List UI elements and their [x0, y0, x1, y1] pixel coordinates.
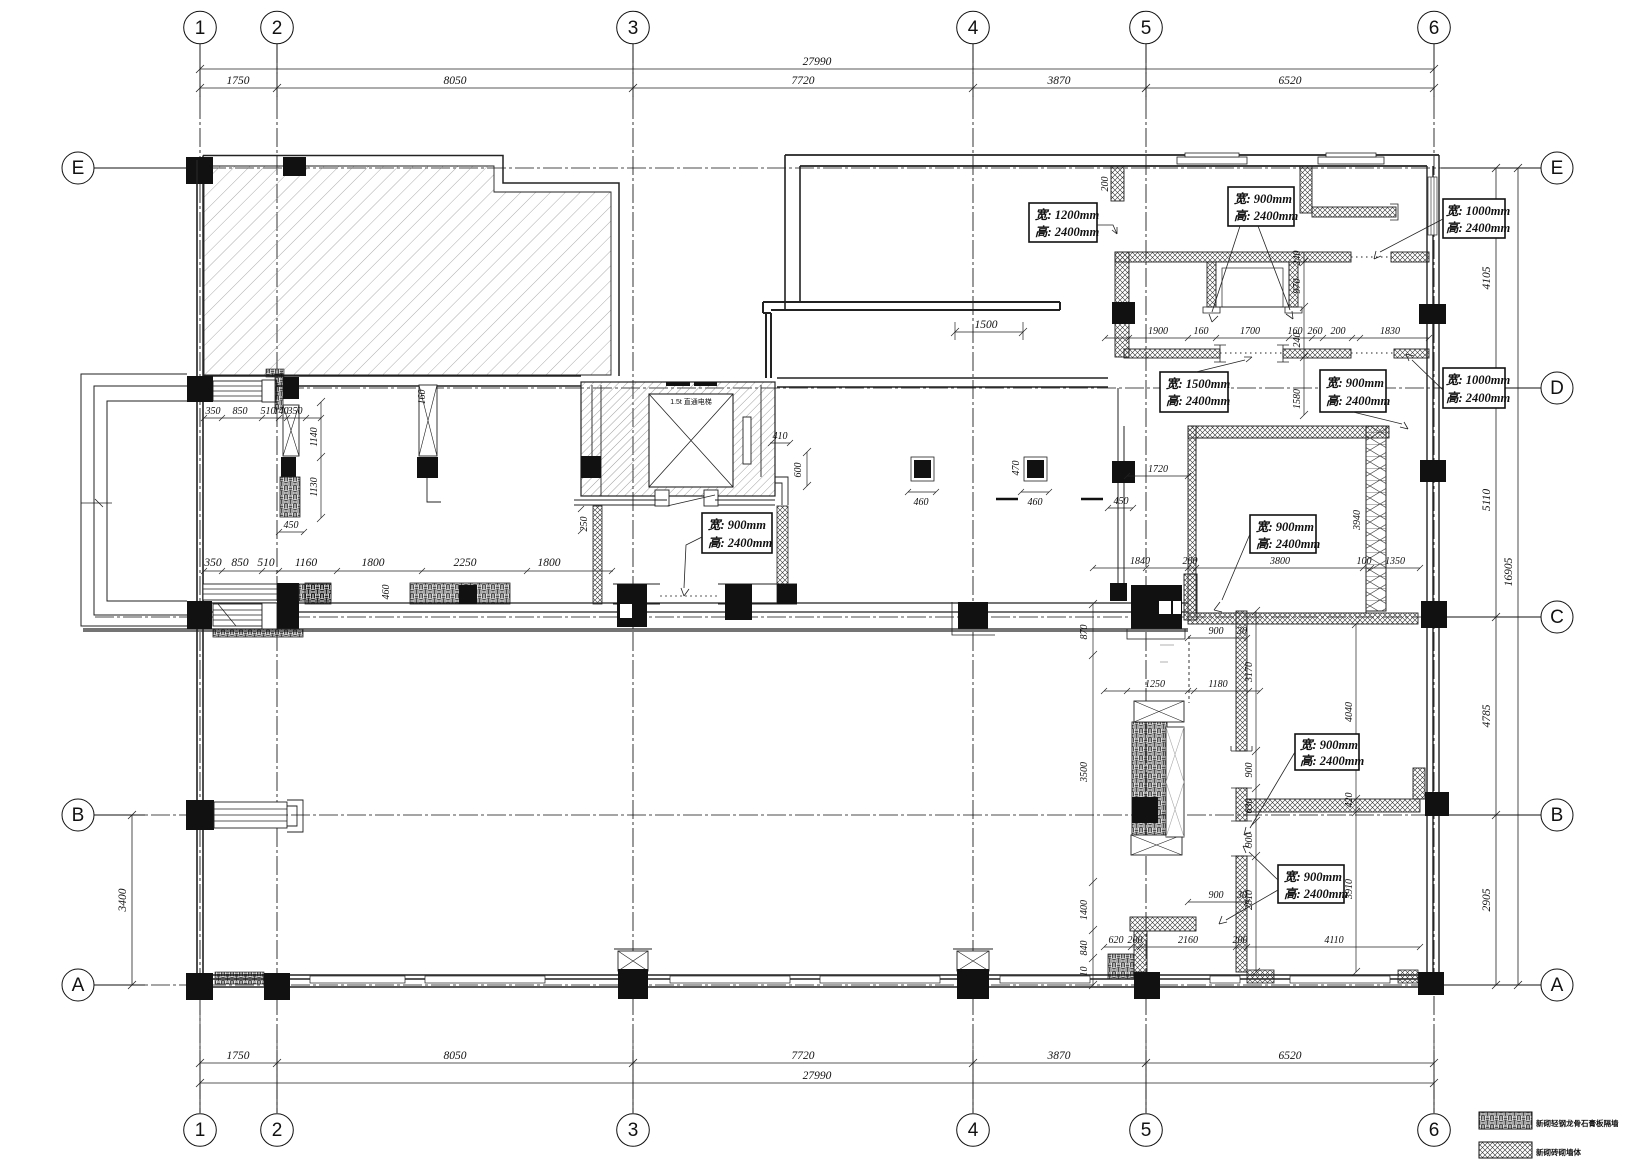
- vestibule nested rectangles: [81, 374, 187, 626]
- svg-text:850: 850: [233, 406, 248, 417]
- column B6: [1425, 792, 1449, 816]
- svg-text:高: 2400mm: 高: 2400mm: [1256, 537, 1321, 551]
- right exterior wall: [1427, 155, 1439, 985]
- svg-text:4110: 4110: [1324, 935, 1343, 946]
- svg-text:1750: 1750: [227, 75, 250, 87]
- bottom dimension chain: [196, 1010, 1438, 1090]
- column D2: [283, 377, 299, 399]
- stair shaft basket wall: [1132, 722, 1167, 835]
- door opening dash x1188: [1188, 636, 1190, 703]
- call panel: [743, 417, 751, 464]
- svg-text:宽: 900mm: 宽: 900mm: [1299, 738, 1358, 752]
- svg-text:宽: 900mm: 宽: 900mm: [1255, 520, 1314, 534]
- svg-text:420: 420: [1344, 793, 1355, 808]
- svg-text:3170: 3170: [1244, 662, 1255, 683]
- dim 1720: [1124, 473, 1191, 479]
- svg-text:5110: 5110: [1481, 489, 1493, 511]
- column C mid: [725, 584, 752, 620]
- svg-text:200: 200: [1331, 326, 1346, 337]
- svg-text:1400: 1400: [1079, 900, 1090, 920]
- partition x1293: [1289, 262, 1298, 307]
- svg-text:2160: 2160: [1178, 935, 1198, 946]
- svg-text:3: 3: [628, 18, 639, 39]
- svg-text:840: 840: [1079, 941, 1090, 956]
- svg-text:8050: 8050: [444, 1050, 467, 1062]
- column A3 + xbox: [614, 949, 652, 999]
- vestibule entry tick: [81, 499, 112, 507]
- column C6: [1421, 601, 1447, 628]
- B-row interior wall: [1247, 799, 1420, 812]
- label box W1200: [1029, 203, 1100, 242]
- svg-text:1580: 1580: [1292, 389, 1303, 409]
- column A1: [186, 973, 213, 1000]
- partition x1211: [1207, 262, 1216, 307]
- svg-text:850: 850: [231, 557, 249, 569]
- svg-text:1130: 1130: [309, 477, 320, 496]
- svg-text:4: 4: [968, 1120, 979, 1141]
- column C lobby right: [777, 584, 797, 604]
- black block in stair: [1132, 797, 1158, 823]
- lobby door gap dashes: [660, 595, 718, 597]
- C-row sill brick piece 2 with column: [410, 583, 510, 604]
- svg-text:6520: 6520: [1279, 75, 1302, 87]
- svg-text:350: 350: [287, 406, 303, 417]
- shaft right step: [775, 477, 788, 505]
- svg-text:900: 900: [1244, 833, 1255, 848]
- svg-text:6: 6: [1429, 18, 1440, 39]
- svg-text:27990: 27990: [803, 56, 832, 68]
- long dim chain middle band y571: [201, 568, 615, 574]
- right wall window strip: [1428, 177, 1437, 235]
- svg-text:8050: 8050: [444, 75, 467, 87]
- column A2: [264, 973, 290, 1000]
- label box W900 B room lower: [1278, 865, 1349, 903]
- svg-text:高: 2400mm: 高: 2400mm: [708, 536, 773, 550]
- svg-text:630: 630: [1244, 799, 1255, 814]
- svg-text:宽: 900mm: 宽: 900mm: [1233, 192, 1292, 206]
- sill piece A1-A2: [215, 972, 264, 984]
- svg-text:高: 2400mm: 高: 2400mm: [1166, 394, 1231, 408]
- lobby below shaft walls: [574, 500, 775, 505]
- dim chain under D door: [201, 415, 324, 421]
- svg-text:1140: 1140: [309, 427, 320, 446]
- column C3: [617, 584, 647, 627]
- svg-text:4: 4: [968, 18, 979, 39]
- free column mid2: [1024, 457, 1047, 481]
- room inner outline D-C cluster: [1196, 438, 1366, 613]
- svg-text:900: 900: [1244, 763, 1255, 778]
- closet inner room: [1216, 262, 1289, 307]
- svg-text:16905: 16905: [1503, 557, 1515, 586]
- svg-text:1250: 1250: [1145, 679, 1165, 690]
- left dimension B-A 3400: [128, 811, 136, 989]
- right dimension chain E-A: [1492, 164, 1522, 989]
- vertical dim 1140/1130 at x321: [317, 398, 325, 522]
- crosshatch piece A wall: [1247, 970, 1274, 983]
- svg-text:5: 5: [1141, 18, 1152, 39]
- C-row band right cluster: [1188, 613, 1418, 624]
- D-C cluster top band: [1188, 426, 1389, 438]
- svg-text:1900: 1900: [1148, 326, 1168, 337]
- cluster left wall: [1115, 252, 1129, 357]
- interior wall y306 with step: [763, 302, 1060, 378]
- svg-text:7720: 7720: [792, 75, 815, 87]
- column E1: [186, 157, 213, 184]
- label box W1500: [1160, 372, 1231, 412]
- label box W900 C cluster: [1250, 515, 1321, 553]
- dim chain y338 cluster: [1102, 335, 1432, 341]
- svg-text:5: 5: [1141, 1120, 1152, 1141]
- svg-text:30: 30: [1236, 890, 1247, 901]
- terrace hatched area top-left: [204, 166, 611, 375]
- svg-text:970: 970: [1292, 279, 1303, 294]
- small door dash marks mid band: [996, 498, 1103, 501]
- window segments above shaft: [666, 382, 717, 386]
- cluster bottom band: [1124, 349, 1220, 358]
- svg-text:1830: 1830: [1380, 326, 1400, 337]
- grid centerlines horizontal E D C B A: [95, 168, 1540, 985]
- svg-text:2: 2: [272, 18, 283, 39]
- svg-text:宽: 900mm: 宽: 900mm: [1325, 376, 1384, 390]
- brick piece above D door: [266, 369, 284, 377]
- dims 460/470 at free columns: [905, 489, 1052, 495]
- dim chain y568: [1090, 565, 1423, 571]
- svg-text:240: 240: [1292, 251, 1303, 266]
- svg-text:900: 900: [1209, 626, 1224, 637]
- wall from top x1306: [1300, 166, 1312, 213]
- basket piece at A wall near grid5: [1108, 954, 1134, 979]
- svg-text:D: D: [1550, 378, 1564, 399]
- grid bubble 1 top: [184, 11, 1451, 44]
- svg-text:450: 450: [1114, 496, 1129, 507]
- stair ladder shaft: [1366, 426, 1386, 611]
- svg-text:宽: 1000mm: 宽: 1000mm: [1445, 204, 1511, 218]
- svg-text:2: 2: [272, 1120, 283, 1141]
- svg-text:B: B: [1551, 805, 1564, 826]
- svg-text:350: 350: [205, 406, 221, 417]
- door jambs bottom band: [1214, 345, 1289, 362]
- wall D-row top of middle band: [203, 376, 1108, 387]
- column shaft left: [581, 456, 601, 478]
- upper right section west wall: [785, 155, 800, 310]
- svg-text:240: 240: [1292, 333, 1303, 348]
- svg-text:1700: 1700: [1240, 326, 1260, 337]
- grid stub lines at bubbles: [200, 44, 1434, 1113]
- svg-text:200: 200: [1183, 556, 1198, 567]
- svg-text:3940: 3940: [1352, 510, 1363, 531]
- A-row window segments: [310, 976, 1390, 983]
- stair assembly C-B: black block C5: [1110, 583, 1127, 601]
- vertical dim chain x1256: [1252, 607, 1260, 976]
- svg-text:2250: 2250: [454, 557, 477, 569]
- svg-text:4785: 4785: [1481, 704, 1493, 727]
- svg-text:350: 350: [203, 557, 222, 569]
- column D1: [187, 376, 213, 402]
- svg-text:870: 870: [1079, 625, 1090, 640]
- svg-text:160: 160: [417, 390, 428, 405]
- D-C cluster left wall: [1188, 426, 1196, 613]
- label box W900 D cluster lower: [1320, 370, 1391, 412]
- svg-text:6520: 6520: [1279, 1050, 1302, 1062]
- column x1120 mid: [1112, 461, 1135, 483]
- svg-text:7720: 7720: [792, 1050, 815, 1062]
- svg-text:6: 6: [1429, 1120, 1440, 1141]
- svg-text:高: 2400mm: 高: 2400mm: [1446, 391, 1511, 405]
- stair inner column white: [1166, 727, 1184, 837]
- svg-text:1350: 1350: [1385, 556, 1405, 567]
- dim chain y947: [1101, 944, 1423, 950]
- lobby east wall crosshatch: [777, 506, 788, 604]
- svg-text:460: 460: [381, 585, 392, 600]
- svg-text:3870: 3870: [1047, 75, 1071, 87]
- wall line x1120 D to C: [1118, 388, 1124, 583]
- svg-text:1: 1: [195, 1120, 206, 1141]
- svg-text:200: 200: [1233, 935, 1248, 946]
- svg-text:宽: 900mm: 宽: 900mm: [707, 518, 766, 532]
- label box W900 D cluster: [1228, 187, 1299, 226]
- letter bubbles left E B A: [62, 152, 197, 1001]
- svg-text:宽: 1500mm: 宽: 1500mm: [1165, 377, 1231, 391]
- wall stub x428 below D wall: [417, 385, 441, 502]
- top wall windows: [1177, 153, 1384, 164]
- svg-text:27990: 27990: [803, 1070, 832, 1082]
- legend brick item: [1479, 1142, 1581, 1158]
- leader from box to C door: [1214, 534, 1250, 612]
- stair top cap x-box: [1134, 701, 1184, 722]
- svg-text:470: 470: [1011, 461, 1022, 476]
- svg-text:1160: 1160: [295, 557, 317, 569]
- svg-text:宽: 1200mm: 宽: 1200mm: [1034, 208, 1100, 222]
- svg-text:1840: 1840: [1130, 556, 1150, 567]
- dim 1500 under interior wall: [951, 322, 1027, 340]
- vertical dim chain x1356 room: [1352, 620, 1360, 976]
- svg-text:1750: 1750: [227, 1050, 250, 1062]
- wall stub x290 below D wall: window black brick: [280, 405, 300, 517]
- column C4 area: [958, 602, 988, 629]
- svg-text:30: 30: [1236, 626, 1247, 637]
- svg-text:C: C: [1550, 607, 1564, 628]
- svg-text:600: 600: [793, 463, 804, 478]
- svg-text:620: 620: [1109, 935, 1124, 946]
- svg-text:460: 460: [914, 497, 929, 508]
- lobby west wall crosshatch: [593, 506, 602, 604]
- C-row wall long: [83, 603, 1188, 631]
- svg-text:E: E: [1551, 158, 1564, 179]
- label box W900 B room: [1295, 734, 1365, 770]
- label box W1000 right top: [1443, 199, 1511, 238]
- pier right of block: [1184, 574, 1197, 620]
- A-row bottom wall: [197, 975, 1444, 987]
- svg-text:1800: 1800: [362, 557, 385, 569]
- letter bubbles right E D C B A: [1441, 152, 1573, 1001]
- svg-text:450: 450: [284, 520, 299, 531]
- svg-text:4105: 4105: [1481, 266, 1493, 289]
- elevator door opening: [655, 490, 669, 506]
- svg-text:新砌砖砌墙体: 新砌砖砌墙体: [1536, 1147, 1581, 1157]
- stair bottom cap x-box: [1131, 835, 1182, 855]
- svg-text:高: 2400mm: 高: 2400mm: [1234, 209, 1299, 223]
- C-row wall elevator lobby south band: [613, 584, 797, 627]
- grid bubble numbers bottom: [195, 1120, 1440, 1141]
- top band right stub: [1391, 252, 1429, 262]
- door dotted openings D cluster: [1220, 257, 1394, 353]
- svg-text:3: 3: [628, 1120, 639, 1141]
- elevator shaft outer hatched: [581, 382, 788, 506]
- svg-text:新砌轻钢龙骨石膏板隔墙: 新砌轻钢龙骨石膏板隔墙: [1536, 1118, 1619, 1128]
- grid bubble numbers top: [195, 18, 1440, 39]
- interior wall y924 left: [1130, 917, 1196, 931]
- free column mid1: [911, 457, 934, 481]
- column right wall mid: [1420, 460, 1446, 482]
- wall left exterior grid1: [197, 160, 203, 985]
- vertical dims x1304: [1300, 252, 1308, 419]
- column D6 right wall: [1419, 304, 1446, 324]
- svg-text:B: B: [72, 805, 85, 826]
- svg-text:高: 2400mm: 高: 2400mm: [1326, 394, 1391, 408]
- column A6: [1418, 972, 1444, 995]
- svg-text:A: A: [72, 975, 85, 996]
- svg-text:2905: 2905: [1481, 888, 1493, 911]
- C-row sill brick piece 1: [305, 583, 331, 604]
- dim 600 rot: [803, 448, 811, 490]
- terrace outer wall line: [203, 156, 619, 377]
- svg-text:140: 140: [274, 406, 289, 417]
- B-row door assembly left wall: [186, 800, 303, 832]
- door assembly D-row grid1: [187, 374, 299, 409]
- top dimension chain: [196, 74, 1438, 96]
- svg-text:900: 900: [1209, 890, 1224, 901]
- svg-text:260: 260: [1308, 326, 1323, 337]
- pier above B wall right: [1413, 768, 1425, 799]
- svg-text:4040: 4040: [1344, 702, 1355, 722]
- svg-text:1720: 1720: [1148, 464, 1168, 475]
- C-row door assembly left: [187, 583, 331, 637]
- svg-text:410: 410: [773, 431, 788, 442]
- leaders from box to doors: [1209, 226, 1240, 322]
- svg-text:高: 2400mm: 高: 2400mm: [1284, 887, 1349, 901]
- svg-text:3500: 3500: [1079, 762, 1090, 783]
- svg-text:200: 200: [1100, 177, 1111, 192]
- column E2: [283, 157, 306, 176]
- svg-text:460: 460: [1028, 497, 1043, 508]
- dim 450: [1105, 505, 1136, 511]
- svg-text:3800: 3800: [1269, 556, 1290, 567]
- top dimension total 27990: [196, 44, 1438, 96]
- svg-text:100: 100: [1357, 556, 1372, 567]
- svg-text:160: 160: [1194, 326, 1209, 337]
- dim chain y691: [1101, 688, 1263, 694]
- vertical dim chain x1093: [1089, 600, 1097, 989]
- label box W900 elevator lobby: [702, 513, 773, 553]
- svg-text:510: 510: [257, 557, 275, 569]
- upper right top wall: [785, 155, 1439, 166]
- svg-text:宽: 1000mm: 宽: 1000mm: [1445, 373, 1511, 387]
- legend basket item: [1479, 1112, 1619, 1129]
- svg-text:1500: 1500: [975, 319, 998, 331]
- svg-text:A: A: [1551, 975, 1564, 996]
- dim 410: [768, 440, 793, 446]
- door jambs on x1242 wall: [1231, 746, 1252, 856]
- D-row top room cluster: top wall band: [1115, 252, 1351, 262]
- svg-text:250: 250: [579, 517, 590, 532]
- svg-text:3400: 3400: [117, 888, 129, 912]
- grid centerlines vertical 1-6: [200, 44, 1434, 1113]
- svg-text:1: 1: [195, 18, 206, 39]
- svg-text:宽: 900mm: 宽: 900mm: [1283, 870, 1342, 884]
- svg-text:高: 2400mm: 高: 2400mm: [1446, 221, 1511, 235]
- pier below top wall x1118: [1111, 166, 1124, 201]
- elevator car box: [649, 394, 733, 487]
- svg-text:1.5t 直通电梯: 1.5t 直通电梯: [670, 397, 712, 406]
- svg-text:1800: 1800: [538, 557, 561, 569]
- svg-text:高: 2400mm: 高: 2400mm: [1300, 754, 1365, 768]
- svg-text:高: 2400mm: 高: 2400mm: [1035, 225, 1100, 239]
- svg-text:200: 200: [1128, 935, 1143, 946]
- column A5: [1134, 972, 1160, 999]
- grid bubble row bottom: [184, 1114, 1451, 1147]
- horizontal small dims 900 30: [1185, 635, 1250, 641]
- svg-text:3870: 3870: [1047, 1050, 1071, 1062]
- svg-text:1180: 1180: [1208, 679, 1227, 690]
- svg-text:E: E: [72, 158, 85, 179]
- column D5: [1112, 302, 1135, 324]
- dim 450 below stub: [276, 529, 307, 535]
- label box W1000 right D: [1443, 368, 1511, 408]
- B-A cluster vertical wall x1242 segments: [1236, 611, 1247, 751]
- column A4 + xbox: [953, 949, 993, 999]
- bottom dimension total 27990: [196, 1079, 1438, 1087]
